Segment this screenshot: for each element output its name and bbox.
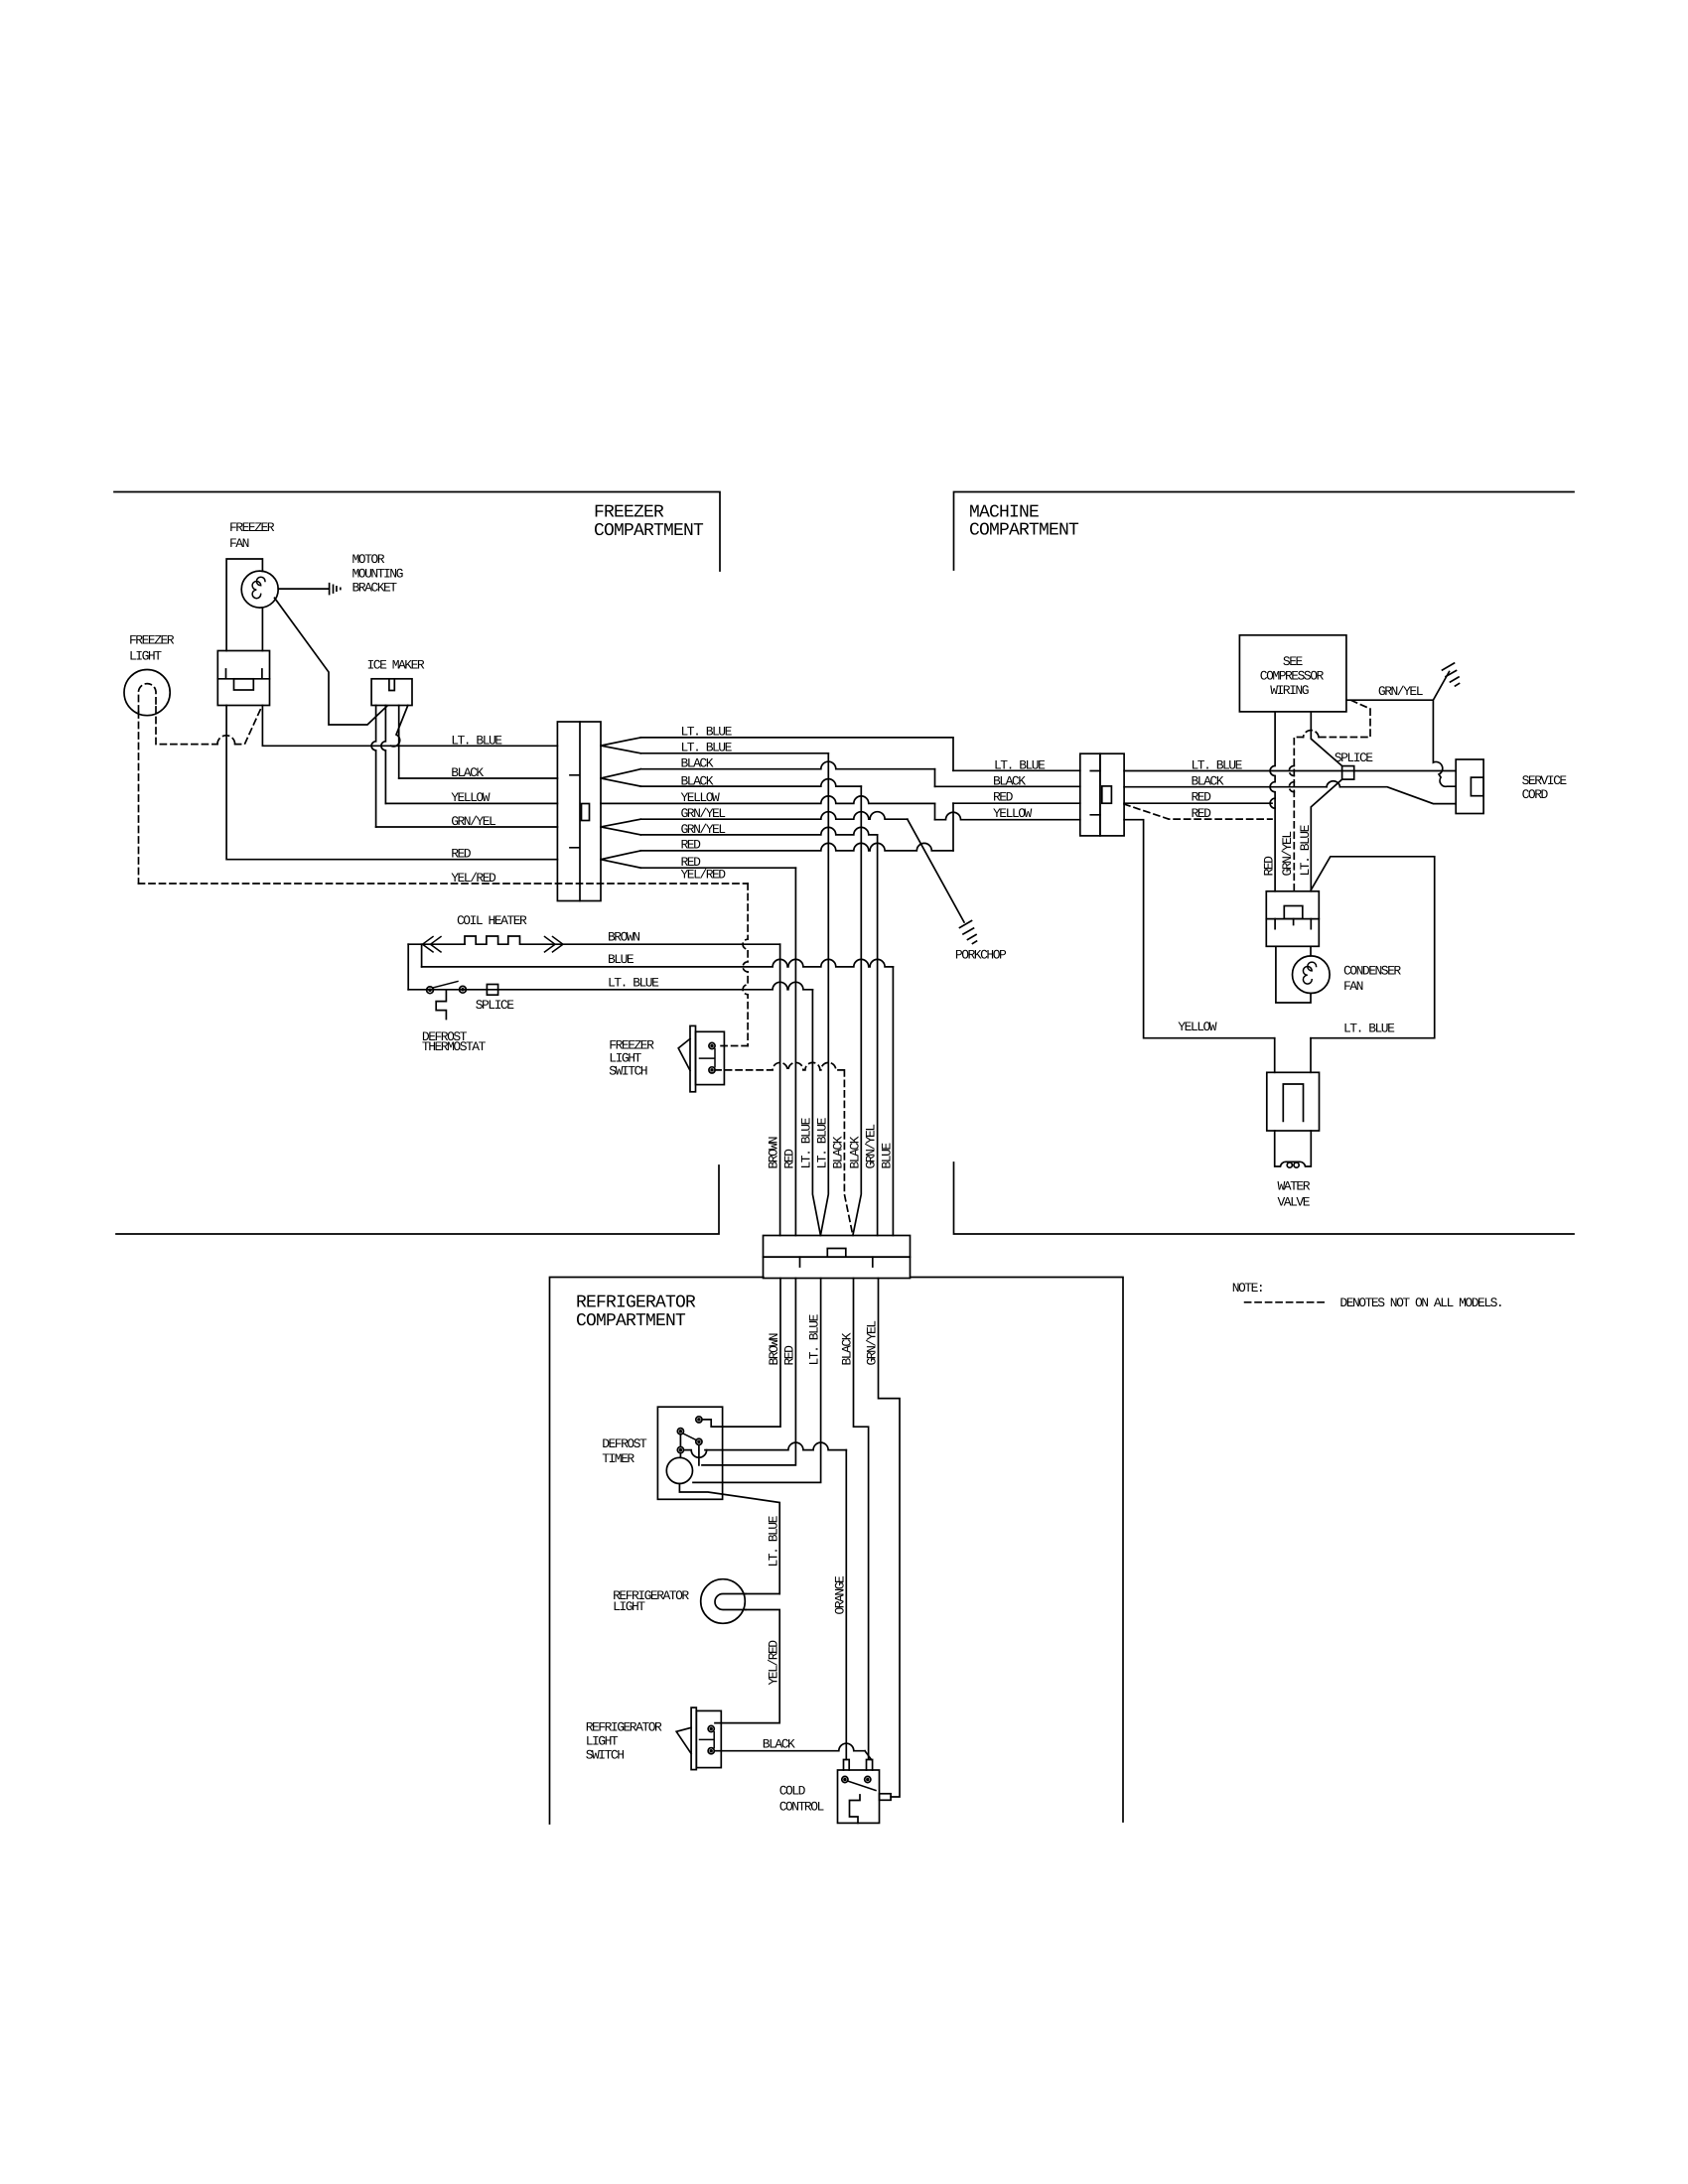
svg-text:DENOTES NOT ON ALL MODELS.: DENOTES NOT ON ALL MODELS. bbox=[1339, 1296, 1502, 1310]
wire BLACK (connector B to service cord) bbox=[1124, 787, 1456, 804]
motor mounting bracket wire bbox=[278, 588, 329, 590]
refrigerator light switch pins bbox=[708, 1725, 714, 1731]
ice maker pin 1 (to GRN/YEL) bbox=[371, 706, 375, 828]
svg-text:SPLICE: SPLICE bbox=[476, 998, 515, 1013]
ice maker pin 3 (to BLACK) bbox=[398, 706, 400, 779]
wire GRN/YEL (ice maker to connector A) bbox=[376, 826, 558, 828]
wire LT. BLUE loop (relay to water valve) bbox=[1311, 857, 1435, 1038]
svg-text:RED: RED bbox=[681, 838, 702, 853]
wire BLACK row 2 (down to refrigerator) bbox=[640, 779, 861, 786]
freezer light bulb bbox=[124, 670, 170, 716]
svg-text:RED: RED bbox=[451, 847, 472, 862]
svg-text:YEL/RED: YEL/RED bbox=[681, 868, 727, 883]
svg-text:CONTROL: CONTROL bbox=[779, 1800, 824, 1815]
splice on LT. BLUE row bbox=[487, 985, 497, 996]
freezer light switch body bbox=[690, 1025, 696, 1091]
defrost timer motor circle bbox=[679, 1453, 681, 1458]
wire BLACK vertical dashed (from freezer light switch) bbox=[844, 1070, 853, 1236]
cold control bellows bbox=[850, 1795, 861, 1823]
svg-text:BLACK: BLACK bbox=[451, 765, 484, 780]
svg-text:LIGHT: LIGHT bbox=[613, 1599, 645, 1614]
wire GRN/YEL row 2 (down to refrigerator) bbox=[640, 827, 877, 834]
wire GRN/YEL vertical bbox=[877, 835, 879, 1236]
wire LT. BLUE into connector B bbox=[953, 769, 1080, 771]
wire LT. BLUE (splice down to relay) bbox=[1311, 779, 1341, 891]
svg-text:BLUE: BLUE bbox=[879, 1143, 894, 1169]
svg-text:GRN/YEL: GRN/YEL bbox=[864, 1321, 879, 1366]
svg-text:LT. BLUE: LT. BLUE bbox=[681, 725, 733, 740]
svg-text:THERMOSTAT: THERMOSTAT bbox=[422, 1039, 487, 1054]
porkchop chassis ground symbol bbox=[960, 921, 977, 944]
wire RED (compressor pin to relay) bbox=[1270, 712, 1275, 891]
water valve coil bbox=[1275, 1131, 1312, 1166]
svg-text:COMPARTMENT: COMPARTMENT bbox=[576, 1311, 686, 1331]
svg-text:SERVICE: SERVICE bbox=[1522, 773, 1568, 788]
svg-text:YELLOW: YELLOW bbox=[993, 806, 1033, 821]
refrigerator light switch body bbox=[691, 1707, 696, 1770]
svg-text:FAN: FAN bbox=[229, 536, 249, 551]
svg-text:RED: RED bbox=[1192, 790, 1212, 805]
svg-text:BLACK: BLACK bbox=[830, 1136, 845, 1168]
wire to porkchop ground (diagonal) bbox=[908, 819, 964, 922]
coil heater left wrap bbox=[407, 944, 409, 990]
svg-text:COMPARTMENT: COMPARTMENT bbox=[969, 521, 1079, 541]
wire from timer motor to refrigerator light (LT. BLUE) bbox=[679, 1484, 779, 1594]
svg-text:GRN/YEL: GRN/YEL bbox=[1280, 832, 1295, 877]
svg-text:FREEZER: FREEZER bbox=[129, 633, 175, 648]
chassis ground symbol (GRN/YEL) bbox=[1443, 663, 1460, 686]
svg-text:MACHINE: MACHINE bbox=[969, 503, 1039, 523]
svg-text:CORD: CORD bbox=[1522, 787, 1549, 802]
wire pair split BLACK bbox=[601, 769, 640, 786]
wire YELLOW into connector B bbox=[935, 812, 1080, 819]
freezer fan motor frame bbox=[226, 559, 262, 651]
wire RED (to defrost timer) bbox=[702, 1279, 795, 1465]
svg-text:RED: RED bbox=[782, 1149, 797, 1169]
wire YEL/RED (light to switch) bbox=[715, 1610, 779, 1723]
svg-text:BLACK: BLACK bbox=[681, 774, 714, 789]
wire GRN/YEL (compressor to ground and service cord) bbox=[1346, 672, 1456, 787]
cold control tab (to GRN/YEL) bbox=[880, 1794, 892, 1801]
machine compartment border (bottom line with left stub) bbox=[954, 1162, 1575, 1234]
svg-text:NOTE:: NOTE: bbox=[1232, 1281, 1264, 1296]
wire BLACK (ice maker to connector A) bbox=[399, 777, 558, 779]
wire BLUE vertical bbox=[892, 967, 894, 1236]
refrigerator bulkhead connector body bbox=[764, 1236, 911, 1258]
svg-text:SEE: SEE bbox=[1283, 654, 1304, 669]
svg-text:BROWN: BROWN bbox=[767, 1333, 781, 1365]
svg-text:BROWN: BROWN bbox=[767, 1137, 781, 1168]
svg-text:BLACK: BLACK bbox=[763, 1737, 795, 1752]
svg-text:FAN: FAN bbox=[1343, 979, 1363, 994]
wire BROWN (to defrost timer) bbox=[702, 1279, 780, 1428]
defrost timer contacts bbox=[696, 1417, 702, 1423]
svg-text:LT. BLUE: LT. BLUE bbox=[681, 741, 733, 755]
refrigerator compartment border (top-left segment + left side) bbox=[550, 1278, 764, 1825]
svg-text:LT. BLUE: LT. BLUE bbox=[766, 1515, 780, 1567]
freezer fan motor circle M1 bbox=[241, 571, 278, 608]
svg-text:REFRIGERATOR: REFRIGERATOR bbox=[586, 1720, 662, 1735]
wire BLACK (switch to cold control) bbox=[714, 1743, 865, 1750]
wire YELLOW (connector B to water valve) bbox=[1124, 820, 1275, 1038]
svg-text:LT. BLUE: LT. BLUE bbox=[798, 1117, 813, 1168]
svg-text:MOTOR: MOTOR bbox=[352, 552, 385, 567]
wire BLACK (to cold control) bbox=[854, 1279, 869, 1759]
svg-text:YELLOW: YELLOW bbox=[1178, 1020, 1217, 1034]
wire YEL/RED dashed vertical to freezer light switch bbox=[743, 884, 748, 1046]
wire YELLOW (ice maker to connector A) bbox=[385, 802, 557, 804]
svg-text:COMPRESSOR: COMPRESSOR bbox=[1260, 668, 1325, 683]
wire pair split RED bbox=[601, 851, 640, 868]
svg-text:DEFROST: DEFROST bbox=[602, 1436, 647, 1451]
svg-text:ICE MAKER: ICE MAKER bbox=[367, 658, 425, 673]
svg-text:LIGHT: LIGHT bbox=[586, 1734, 619, 1749]
svg-text:BLUE: BLUE bbox=[608, 952, 634, 967]
freezer light filament (dashed) bbox=[139, 684, 157, 712]
svg-text:LIGHT: LIGHT bbox=[129, 649, 162, 664]
wire RED row 1 (to connector B) bbox=[640, 843, 953, 850]
freezer compartment border (bottom line with right stub) bbox=[116, 1165, 719, 1234]
svg-text:MOUNTING: MOUNTING bbox=[352, 567, 403, 582]
wire GRN/YEL dashed (alternate route to relay) bbox=[1294, 701, 1370, 891]
svg-text:FREEZER: FREEZER bbox=[594, 503, 664, 523]
svg-text:LT. BLUE: LT. BLUE bbox=[994, 758, 1046, 773]
wire GRN/YEL (to cold control) bbox=[879, 1279, 901, 1798]
svg-text:COIL HEATER: COIL HEATER bbox=[457, 913, 527, 928]
wire BROWN vertical bbox=[779, 944, 781, 1235]
svg-text:TIMER: TIMER bbox=[602, 1451, 634, 1466]
motor mounting bracket chassis ground symbol bbox=[330, 584, 341, 595]
svg-text:BRACKET: BRACKET bbox=[352, 581, 398, 596]
svg-text:RED: RED bbox=[993, 790, 1014, 805]
compressor wiring box bbox=[1239, 635, 1346, 712]
condenser fan motor winding bbox=[1303, 962, 1316, 984]
wire YEL/RED dashed (freezer light to light switch) bbox=[139, 883, 749, 885]
svg-text:GRN/YEL: GRN/YEL bbox=[864, 1125, 879, 1169]
cold control contacts bbox=[842, 1776, 848, 1782]
wire RED vertical bbox=[794, 868, 796, 1235]
wire BLUE row bbox=[422, 959, 894, 966]
ice maker pin 4 (corner, to LT. BLUE) bbox=[391, 706, 408, 747]
wire LT. BLUE (compressor pin to splice) bbox=[1311, 712, 1341, 766]
wire BLACK into connector B bbox=[935, 785, 1080, 787]
coil heater connector chevrons bbox=[423, 937, 442, 952]
svg-text:WIRING: WIRING bbox=[1270, 683, 1309, 698]
wire from timer pin 3 to RED bbox=[698, 1444, 700, 1465]
wire LT. BLUE vertical 1 bbox=[812, 990, 820, 1236]
wire from timer common to ORANGE bbox=[684, 1450, 707, 1458]
wire RED dashed (not on all models) bbox=[1124, 804, 1272, 819]
svg-text:YELLOW: YELLOW bbox=[451, 790, 491, 805]
refrigerator light bulb bbox=[701, 1579, 746, 1624]
svg-text:LT. BLUE: LT. BLUE bbox=[451, 734, 502, 749]
wire BLACK row 1 (to connector B) bbox=[640, 761, 934, 768]
service cord plug bbox=[1456, 759, 1483, 814]
svg-text:ORANGE: ORANGE bbox=[832, 1575, 847, 1615]
svg-text:BLACK: BLACK bbox=[839, 1332, 854, 1365]
defrost timer box bbox=[657, 1407, 722, 1499]
connector B body bbox=[1080, 753, 1100, 836]
wire dashed from freezer light switch (to BLACK vertical) bbox=[715, 1062, 844, 1069]
svg-text:VALVE: VALVE bbox=[1278, 1195, 1311, 1210]
wire GRN/YEL row 1 (to porkchop ground) bbox=[640, 812, 908, 819]
wire LT. BLUE row 2 (down to refrigerator) bbox=[640, 752, 828, 754]
splice junction square bbox=[1342, 766, 1354, 780]
wire LT. BLUE row (defrost thermostat / splice) bbox=[408, 982, 812, 989]
svg-text:CONDENSER: CONDENSER bbox=[1343, 964, 1401, 979]
condenser fan connector body bbox=[1266, 891, 1319, 947]
svg-text:GRN/YEL: GRN/YEL bbox=[681, 806, 726, 821]
wire pair split LT. BLUE bbox=[601, 738, 640, 753]
svg-text:BLACK: BLACK bbox=[681, 756, 714, 771]
wire RED into connector B bbox=[953, 802, 1080, 804]
wire top lead to LT. BLUE bbox=[746, 1593, 779, 1595]
svg-text:LT. BLUE: LT. BLUE bbox=[1192, 758, 1243, 773]
svg-text:SWITCH: SWITCH bbox=[586, 1748, 625, 1763]
wire LT. BLUE vertical 2 bbox=[820, 753, 828, 1236]
wire RED (fan to connector A) bbox=[226, 706, 557, 860]
svg-text:BROWN: BROWN bbox=[608, 930, 639, 945]
svg-text:RED: RED bbox=[781, 1345, 796, 1366]
ice maker pin 2 (to YELLOW) bbox=[381, 706, 386, 804]
svg-text:COMPARTMENT: COMPARTMENT bbox=[594, 521, 704, 541]
svg-text:LT. BLUE: LT. BLUE bbox=[608, 976, 659, 991]
svg-text:REFRIGERATOR: REFRIGERATOR bbox=[576, 1294, 696, 1313]
wire RED (connector B to compressor) bbox=[1124, 802, 1272, 804]
svg-text:FREEZER: FREEZER bbox=[229, 520, 275, 535]
wire RED row 2 (down to refrigerator) bbox=[640, 867, 795, 869]
svg-text:LT. BLUE: LT. BLUE bbox=[1343, 1022, 1395, 1036]
water valve leads from LT. BLUE/YELLOW line bbox=[1275, 1038, 1311, 1073]
svg-text:LT. BLUE: LT. BLUE bbox=[807, 1313, 822, 1365]
svg-text:WATER: WATER bbox=[1278, 1179, 1311, 1194]
wire LT. BLUE (fan to connector A) bbox=[262, 706, 557, 747]
wire BLACK vertical bbox=[853, 786, 861, 1235]
svg-text:SPLICE: SPLICE bbox=[1335, 751, 1374, 765]
svg-text:RED: RED bbox=[1262, 856, 1277, 877]
condenser fan motor circle M2 bbox=[1293, 956, 1331, 994]
svg-text:SWITCH: SWITCH bbox=[609, 1064, 647, 1079]
svg-text:COLD: COLD bbox=[779, 1784, 806, 1799]
freezer compartment border (top line with right stub) bbox=[114, 492, 720, 572]
freezer fan connector bbox=[217, 651, 269, 706]
freezer light switch pins bbox=[709, 1042, 715, 1048]
svg-text:BLACK: BLACK bbox=[993, 774, 1026, 789]
defrost thermostat contacts bbox=[427, 987, 434, 994]
svg-text:GRN/YEL: GRN/YEL bbox=[1378, 684, 1423, 699]
wire from fan motor to ice maker (diagonal) bbox=[275, 598, 388, 725]
svg-text:BLACK: BLACK bbox=[1192, 774, 1224, 789]
wire LT. BLUE row 1 (to connector B) bbox=[640, 738, 953, 770]
svg-text:YEL/RED: YEL/RED bbox=[451, 871, 496, 886]
svg-text:PORKCHOP: PORKCHOP bbox=[955, 948, 1007, 963]
connector A body bbox=[557, 722, 601, 901]
svg-text:YEL/RED: YEL/RED bbox=[766, 1640, 780, 1686]
condenser fan motor leads bbox=[1276, 946, 1311, 1003]
svg-text:BLACK: BLACK bbox=[847, 1136, 862, 1168]
refrigerator compartment border (top-right segment + right side) bbox=[911, 1278, 1123, 1823]
wire pair split GRN/YEL bbox=[601, 819, 640, 835]
svg-text:YELLOW: YELLOW bbox=[681, 790, 721, 805]
ice maker connector body bbox=[371, 679, 412, 706]
wire LT. BLUE (to defrost timer motor) bbox=[693, 1279, 821, 1483]
wire YEL/RED dashed from freezer light (left leg down) bbox=[138, 712, 140, 884]
wire YELLOW row (to connector B) bbox=[601, 796, 935, 804]
freezer fan motor winding bbox=[252, 577, 265, 599]
wire dashed from freezer light right leg to fan connector bbox=[156, 707, 262, 745]
wire LT. BLUE (connector B to splice to service cord) bbox=[1124, 770, 1456, 772]
wire BROWN row with coil heater element bbox=[408, 943, 465, 945]
cold control body bbox=[838, 1770, 880, 1823]
svg-text:LT. BLUE: LT. BLUE bbox=[1298, 824, 1313, 876]
svg-text:LT. BLUE: LT. BLUE bbox=[814, 1117, 829, 1168]
wire ORANGE (timer to cold control) bbox=[845, 1450, 847, 1760]
refrigerator light filament bbox=[715, 1594, 746, 1610]
defrost thermostat lead (staircase stub) bbox=[436, 991, 446, 1020]
water valve connector bbox=[1267, 1072, 1320, 1131]
svg-text:RED: RED bbox=[1192, 806, 1212, 821]
svg-text:GRN/YEL: GRN/YEL bbox=[451, 814, 495, 829]
machine compartment border (top line with left stub) bbox=[954, 492, 1575, 571]
svg-text:GRN/YEL: GRN/YEL bbox=[681, 822, 726, 837]
